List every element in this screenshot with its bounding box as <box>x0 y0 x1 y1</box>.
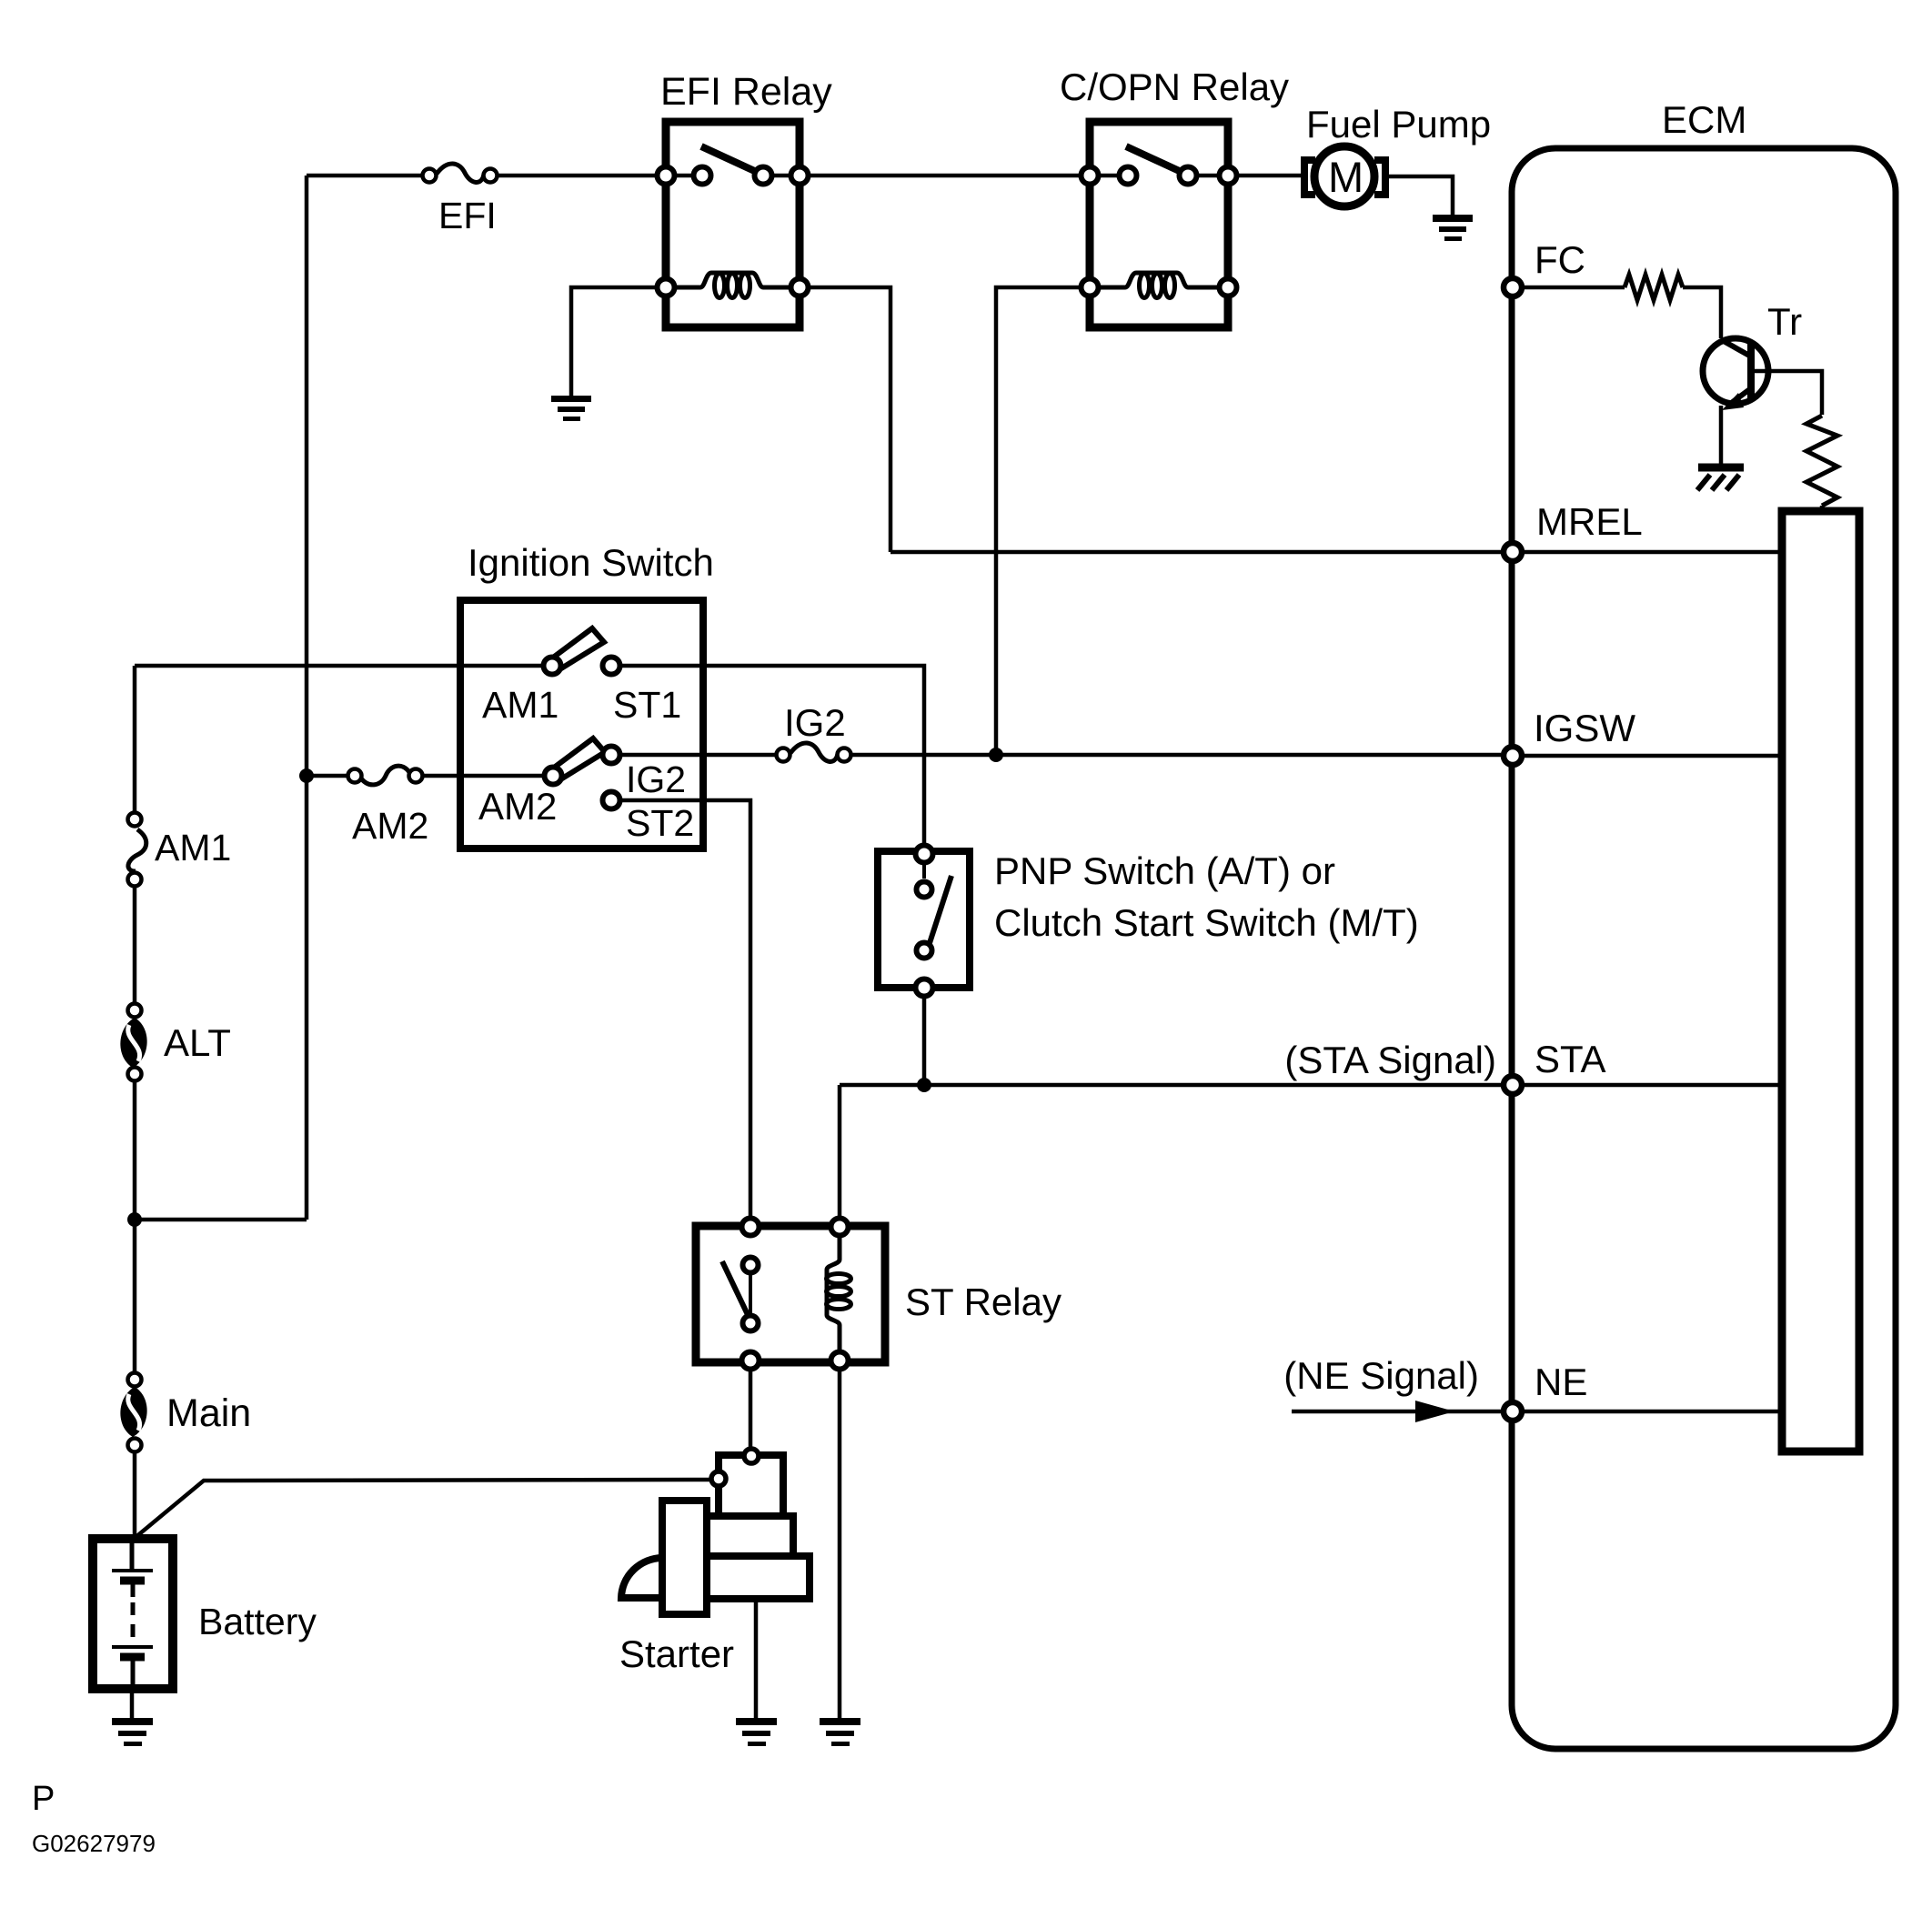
wire STA row <box>840 1083 1501 1088</box>
wire EFI coil to ground <box>571 287 655 397</box>
pin NE <box>1504 1402 1522 1421</box>
wire battery feed vertical (EFI branch) <box>305 176 309 1220</box>
ground fuel pump <box>1433 215 1473 241</box>
node battery junction <box>127 1212 142 1227</box>
fusible link Main <box>120 1373 146 1452</box>
node AM2 branch junction <box>299 768 314 783</box>
svg-text:Battery: Battery <box>198 1601 317 1642</box>
wire IGSW internal <box>1524 754 1782 758</box>
wire transistor collector <box>1755 371 1822 415</box>
svg-text:Starter: Starter <box>619 1632 734 1675</box>
svg-text:AM2: AM2 <box>352 805 428 847</box>
wire fuel pump to ground <box>1385 176 1453 216</box>
relay ST switch <box>722 1258 759 1331</box>
svg-text:Main: Main <box>166 1391 251 1435</box>
svg-text:ALT: ALT <box>164 1021 231 1064</box>
wire left battery column <box>133 666 137 820</box>
svg-text:ST1: ST1 <box>613 684 681 726</box>
ground ST coil line <box>820 1718 860 1746</box>
svg-text:Clutch Start Switch (M/T): Clutch Start Switch (M/T) <box>994 901 1419 944</box>
svg-text:ECM: ECM <box>1662 98 1746 141</box>
wire STA junction down to ST relay coil <box>838 1085 842 1227</box>
battery cells <box>112 1539 153 1689</box>
relay ST coil (vertical) <box>827 1238 851 1350</box>
wire C/OPN contact stubs <box>1101 174 1118 178</box>
wire ST relay to starter solenoid <box>749 1371 753 1456</box>
svg-text:IG2: IG2 <box>626 758 686 800</box>
relay C/OPN switch blade <box>1126 146 1185 174</box>
node STA junction <box>917 1078 931 1092</box>
wire AM2 row <box>307 774 348 778</box>
svg-text:FC: FC <box>1535 238 1585 281</box>
svg-text:Fuel Pump: Fuel Pump <box>1306 103 1491 146</box>
wire FC to resistor <box>1524 286 1625 290</box>
wire ST2 to ST relay <box>621 800 750 1227</box>
wire battery to ground <box>130 1689 135 1720</box>
relay EFI box <box>666 122 800 327</box>
svg-text:MREL: MREL <box>1536 500 1643 543</box>
svg-text:STA: STA <box>1535 1038 1606 1080</box>
resistor FC <box>1625 275 1683 300</box>
ECM box <box>1512 148 1896 1749</box>
ground battery <box>112 1718 153 1746</box>
wire EFI relay to C/OPN relay <box>810 174 1090 178</box>
ground EFI relay <box>551 396 591 421</box>
svg-text:ST2: ST2 <box>626 802 694 844</box>
svg-text:AM1: AM1 <box>482 684 558 726</box>
svg-text:P: P <box>32 1780 55 1818</box>
relay C/OPN contact pins <box>1082 167 1099 185</box>
relay ST pins <box>742 1219 760 1236</box>
wire transistor emitter to ground <box>1719 406 1724 467</box>
svg-text:(NE Signal): (NE Signal) <box>1283 1354 1479 1397</box>
wire EFI coil right to MREL node <box>810 287 891 552</box>
wire AM2 fuse to contact <box>422 774 553 778</box>
relay EFI contact pins <box>658 167 675 185</box>
battery box <box>93 1539 173 1689</box>
wire starter motor to ground <box>754 1599 759 1720</box>
wire PNP to STA row <box>922 999 927 1085</box>
svg-text:M: M <box>1328 153 1363 201</box>
svg-text:C/OPN Relay: C/OPN Relay <box>1060 65 1289 108</box>
fuse AM2 <box>348 766 423 785</box>
starter assembly <box>621 1449 810 1614</box>
wire C/OPN coil feed from IGSW junction <box>996 287 1079 755</box>
wire IG2 row to fuse <box>621 753 777 758</box>
pin STA <box>1504 1076 1522 1094</box>
wire IG2 fuse to IGSW pin <box>850 753 1501 758</box>
fuse AM1 (vertical) <box>128 813 146 887</box>
motor fuel pump <box>1304 146 1385 206</box>
svg-text:(STA Signal): (STA Signal) <box>1284 1039 1496 1081</box>
svg-text:EFI: EFI <box>438 195 497 236</box>
svg-text:PNP Switch (A/T) or: PNP Switch (A/T) or <box>994 849 1335 892</box>
wire junction link horizontal <box>135 1218 307 1222</box>
node IGSW junction <box>989 748 1003 762</box>
svg-text:Tr: Tr <box>1767 300 1802 343</box>
svg-text:AM2: AM2 <box>478 785 557 828</box>
fusible link ALT <box>120 1004 146 1081</box>
ignition switch box <box>460 600 703 849</box>
transistor Tr <box>1703 338 1768 410</box>
wire resistor to transistor base <box>1683 287 1721 338</box>
wire NE internal <box>1524 1410 1782 1414</box>
switch PNP contacts <box>916 846 952 997</box>
svg-text:EFI Relay: EFI Relay <box>660 70 832 114</box>
switch PNP box <box>878 851 970 988</box>
svg-text:ST Relay: ST Relay <box>905 1280 1062 1323</box>
wire AM1 row horizontal <box>135 664 552 668</box>
svg-text:IGSW: IGSW <box>1534 707 1635 749</box>
relay C/OPN coil pins <box>1082 279 1099 296</box>
svg-text:IG2: IG2 <box>784 701 846 744</box>
wire battery to starter cable <box>134 1480 710 1539</box>
pin MREL <box>1504 543 1522 561</box>
wire B+ feed top horizontal <box>307 174 423 178</box>
ground starter <box>736 1718 777 1746</box>
fuse EFI <box>423 164 498 183</box>
wire STA internal <box>1524 1083 1782 1088</box>
switch AM2-IG2 contacts <box>545 738 620 809</box>
relay EFI switch blade <box>701 146 760 174</box>
relay C/OPN coil <box>1101 273 1217 298</box>
wire MREL row <box>891 550 1782 555</box>
ECM internal block <box>1782 511 1859 1451</box>
switch AM1-ST1 contacts <box>544 628 620 675</box>
svg-text:NE: NE <box>1535 1361 1587 1403</box>
wire ST relay coil to ground <box>838 1371 842 1720</box>
svg-text:AM1: AM1 <box>155 827 231 869</box>
wire EFI contact stubs <box>677 174 692 178</box>
pin FC <box>1504 278 1522 296</box>
wire resistor to internal block <box>1820 506 1825 512</box>
relay C/OPN box <box>1090 122 1228 327</box>
fuse IG2 <box>777 743 851 762</box>
svg-text:G02627979: G02627979 <box>32 1830 156 1857</box>
wire C/OPN contact to fuel pump <box>1239 174 1303 178</box>
wire NE signal arrow <box>1292 1410 1501 1414</box>
resistor collector vertical <box>1806 416 1837 506</box>
wire ST1 to PNP <box>621 666 924 854</box>
relay EFI coil pins <box>658 279 675 296</box>
relay EFI coil <box>677 273 789 298</box>
pin IGSW <box>1504 747 1522 765</box>
svg-text:Ignition Switch: Ignition Switch <box>468 541 714 584</box>
ground transistor (slash style) <box>1697 467 1744 490</box>
relay ST box <box>696 1226 885 1362</box>
